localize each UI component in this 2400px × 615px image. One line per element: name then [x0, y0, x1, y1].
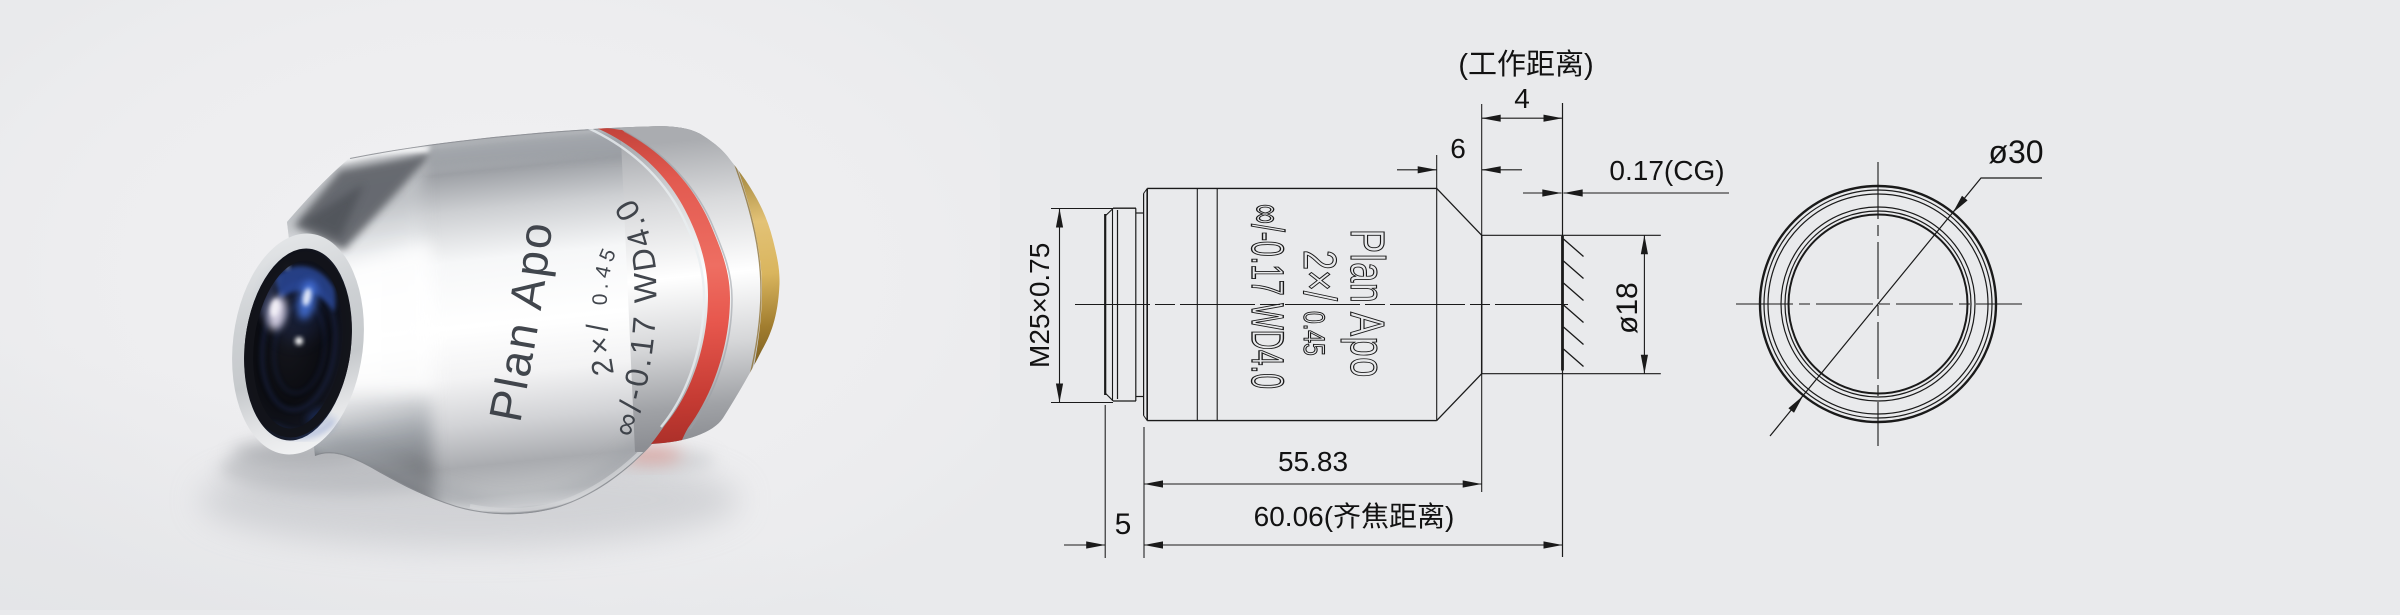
60.06 arrows: [1144, 541, 1163, 548]
6 dim line right part: [1482, 169, 1522, 171]
knurl band right: [1216, 188, 1218, 420]
cone transition line: [1436, 188, 1438, 420]
circle r97: [1781, 207, 1975, 401]
underside shade band: [332, 438, 645, 506]
M25 dim line: [1059, 209, 1061, 403]
svg-text:60.06(齐焦距离): 60.06(齐焦距离): [1254, 501, 1455, 532]
5 dim outside line: [1064, 544, 1105, 546]
thread right boundary: [1135, 208, 1137, 401]
front rim: [220, 226, 376, 462]
55.83 dim line: [1144, 483, 1482, 485]
svg-text:(工作距离): (工作距离): [1458, 48, 1593, 81]
specimen plane ext vertical: [1562, 103, 1564, 557]
diameter arrow lower: [1788, 396, 1803, 413]
5 dim outside arrow: [1086, 541, 1105, 548]
cone dark reflection top: [294, 152, 434, 250]
6 dim arrows (outside): [1418, 166, 1437, 173]
thread chamfer bottom: [1105, 393, 1113, 401]
technical drawing (side view): [1051, 103, 1729, 558]
hatch marks: [1564, 239, 1584, 257]
nose front face: [1481, 235, 1483, 373]
body top edge: [1147, 187, 1437, 189]
ext 55.83/60.06 left (flange face): [1143, 427, 1145, 558]
cone shading: [230, 140, 435, 520]
CG dim line left: [1523, 192, 1562, 194]
svg-text:ø18: ø18: [1611, 282, 1644, 334]
rear silver section: [620, 118, 800, 452]
relief step bottom: [1136, 396, 1144, 398]
phi18 dim line: [1643, 235, 1645, 373]
cone slant top: [1437, 188, 1482, 235]
4 dim line: [1482, 117, 1563, 119]
center axis line: [1075, 304, 1568, 306]
ext 5dim left (thread face): [1104, 405, 1106, 558]
CG dim line right: [1564, 192, 1730, 194]
body left edge: [1146, 189, 1148, 421]
phi18 ext top: [1482, 234, 1661, 236]
svg-text:Plan Apo: Plan Apo: [1340, 229, 1395, 378]
55.83 arrows: [1144, 480, 1163, 487]
relief step top: [1136, 212, 1144, 214]
ext line nose face vertical: [1481, 104, 1483, 235]
M25 dim arrows: [1056, 209, 1063, 228]
outer circle: [1760, 186, 1996, 422]
knurl band left: [1196, 188, 1198, 420]
svg-text:4: 4: [1514, 83, 1530, 114]
svg-text:5: 5: [1115, 508, 1132, 541]
svg-text:M25×0.75: M25×0.75: [1024, 243, 1055, 368]
rear view circles: [1736, 162, 2042, 446]
ext line cone start (6 dim): [1436, 155, 1438, 188]
svg-text:∞/-0.17 WD4.0: ∞/-0.17 WD4.0: [1242, 204, 1293, 389]
objective body: [287, 126, 780, 514]
top edge line: [350, 126, 702, 158]
60.06 dim line: [1144, 544, 1563, 546]
M25 ext bottom: [1051, 402, 1113, 404]
cone dark band bottom: [230, 425, 400, 512]
flange chamfer top: [1144, 189, 1148, 194]
thread bottom edge: [1113, 400, 1136, 402]
svg-text:6: 6: [1450, 133, 1466, 164]
flange chamfer bottom: [1144, 416, 1148, 421]
thread top edge: [1113, 207, 1136, 209]
lens highlights: [266, 267, 326, 343]
cone slant bottom: [1437, 374, 1482, 421]
lens bezel ring: [239, 250, 357, 438]
thread inner line 2: [1117, 210, 1119, 399]
circle center line vertical: [1877, 162, 1879, 446]
4 dim arrows: [1482, 115, 1501, 122]
gold thread cap: [735, 160, 790, 397]
diagonal diameter line: [1770, 178, 2042, 436]
svg-text:0.17(CG): 0.17(CG): [1609, 155, 1724, 186]
circle r114: [1764, 190, 1992, 418]
inner bore circle: [1789, 215, 1968, 394]
svg-text:ø30: ø30: [1988, 134, 2043, 170]
circle r110: [1768, 194, 1988, 414]
specimen plane thick line: [1561, 236, 1564, 371]
thread chamfer top: [1105, 209, 1113, 217]
top reflection band: [428, 128, 712, 170]
M25 ext top: [1051, 208, 1113, 210]
red ring: [592, 126, 730, 444]
svg-text:55.83: 55.83: [1278, 446, 1348, 477]
circle r93: [1785, 211, 1971, 397]
diameter arrow upper: [1953, 196, 1968, 213]
phi18 ext bottom: [1482, 373, 1661, 375]
shadow: [200, 452, 740, 548]
body bottom edge: [1147, 420, 1437, 422]
cone bright streak: [268, 242, 436, 392]
bright strip under top edge (cone): [304, 145, 430, 174]
circle center line horizontal: [1736, 303, 2022, 305]
lens glass: [234, 242, 363, 446]
thread left face: [1104, 214, 1106, 395]
6 dim line left part: [1397, 169, 1437, 171]
phi18 arrows: [1641, 235, 1648, 254]
thread inner line 1: [1112, 209, 1114, 401]
CG arrows: [1542, 189, 1561, 196]
flange face line: [1143, 194, 1145, 416]
